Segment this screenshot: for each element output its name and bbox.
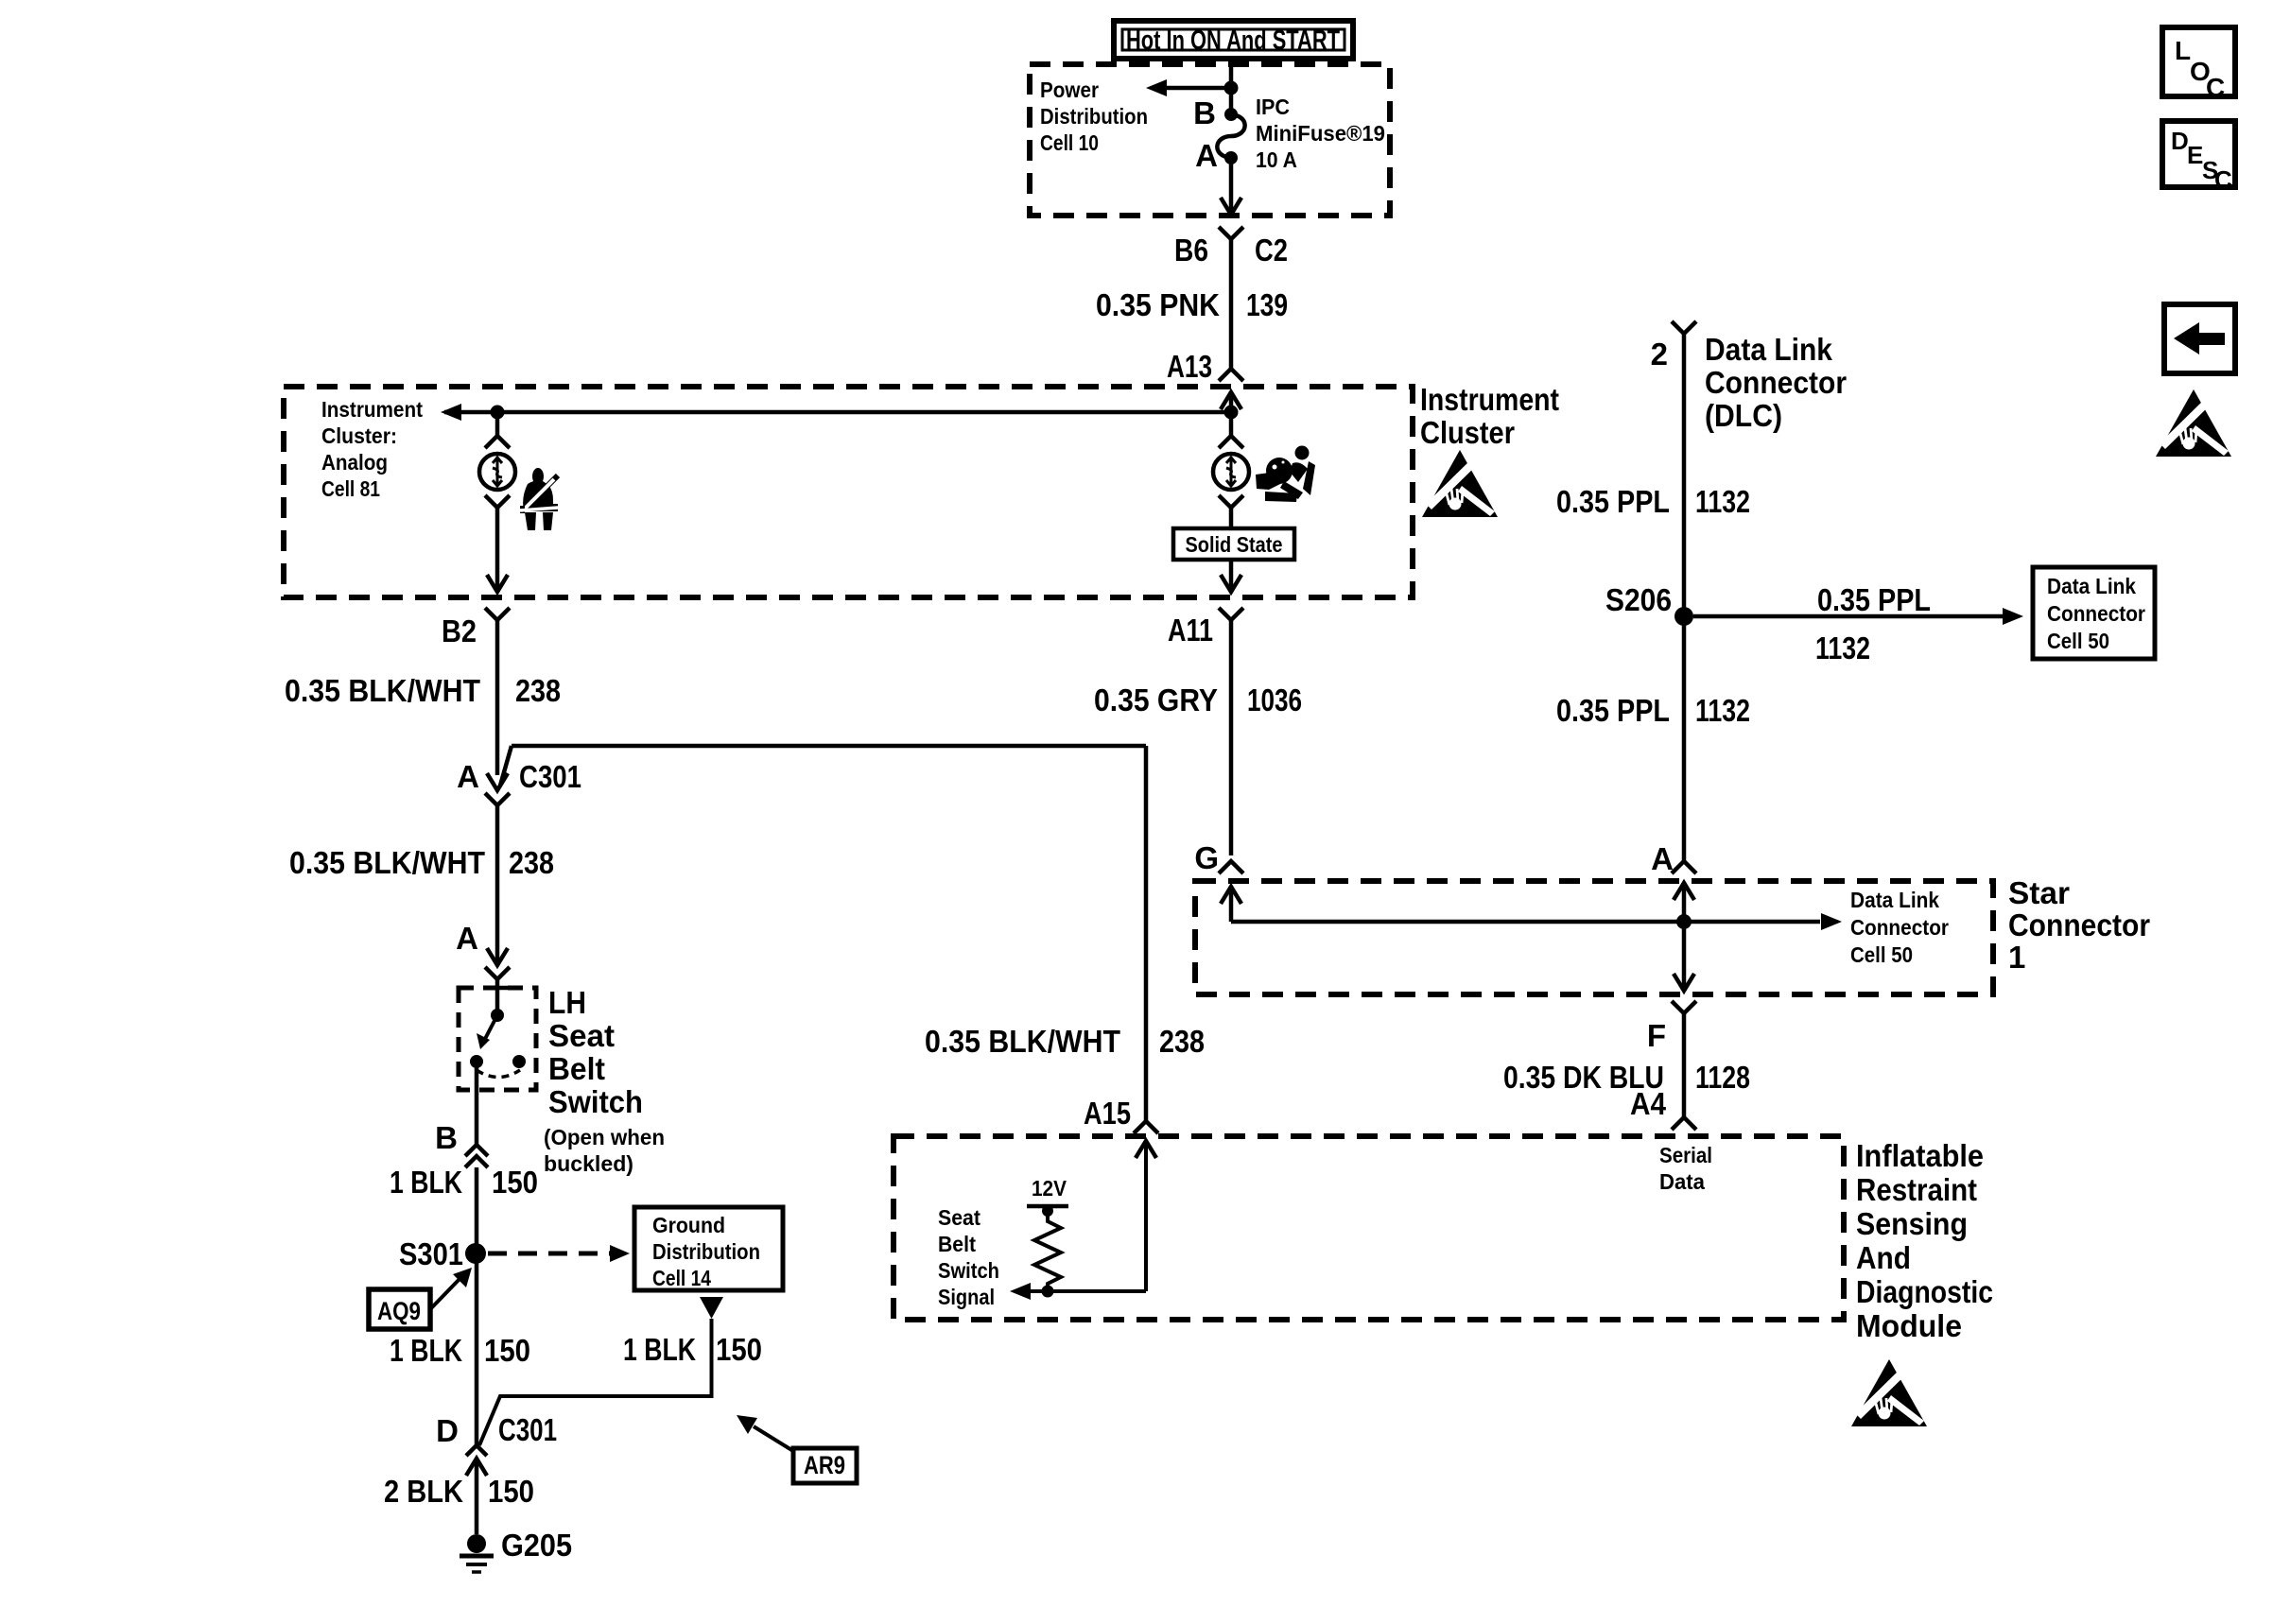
svg-text:0.35 BLK/WHT: 0.35 BLK/WHT: [289, 845, 485, 880]
svg-text:A13: A13: [1167, 349, 1212, 384]
svg-text:Hot In ON And START: Hot In ON And START: [1126, 26, 1340, 56]
svg-text:Seat: Seat: [938, 1205, 980, 1230]
svg-text:0.35 PPL: 0.35 PPL: [1817, 582, 1931, 617]
svg-text:238: 238: [1159, 1024, 1205, 1059]
svg-text:0.35 BLK/WHT: 0.35 BLK/WHT: [925, 1024, 1120, 1059]
svg-text:Connector: Connector: [2047, 601, 2145, 626]
svg-text:Cell 10: Cell 10: [1040, 130, 1099, 155]
svg-text:0.35 PNK: 0.35 PNK: [1096, 287, 1220, 322]
svg-text:A11: A11: [1168, 613, 1213, 648]
svg-text:LH: LH: [548, 985, 586, 1020]
svg-text:B: B: [1193, 95, 1216, 130]
svg-text:C301: C301: [519, 759, 581, 794]
svg-text:Connector: Connector: [1705, 365, 1847, 400]
svg-text:Inflatable: Inflatable: [1856, 1138, 1984, 1173]
svg-text:Switch: Switch: [938, 1258, 999, 1283]
svg-text:1 BLK: 1 BLK: [390, 1333, 462, 1368]
svg-text:Serial: Serial: [1659, 1143, 1712, 1167]
svg-text:buckled): buckled): [544, 1151, 633, 1176]
svg-text:(Open when: (Open when: [544, 1125, 665, 1149]
svg-text:L: L: [2175, 36, 2191, 65]
svg-text:0.35 PPL: 0.35 PPL: [1556, 693, 1670, 728]
svg-text:1132: 1132: [1695, 484, 1750, 519]
svg-text:Restraint: Restraint: [1856, 1172, 1977, 1207]
svg-text:S206: S206: [1605, 582, 1672, 617]
svg-text:Data Link: Data Link: [1705, 332, 1833, 367]
svg-text:(DLC): (DLC): [1705, 398, 1782, 433]
svg-text:A: A: [457, 759, 479, 794]
svg-text:Connector: Connector: [2008, 907, 2150, 942]
svg-text:And: And: [1856, 1240, 1911, 1275]
svg-text:IPC: IPC: [1256, 95, 1290, 119]
svg-text:Sensing: Sensing: [1856, 1206, 1968, 1241]
svg-text:A15: A15: [1084, 1096, 1131, 1131]
svg-text:1036: 1036: [1247, 682, 1302, 717]
svg-text:AR9: AR9: [804, 1451, 845, 1479]
svg-text:10 A: 10 A: [1256, 147, 1297, 172]
svg-text:1 BLK: 1 BLK: [390, 1165, 462, 1200]
svg-text:Instrument: Instrument: [321, 397, 423, 422]
svg-text:Star: Star: [2008, 875, 2070, 910]
svg-text:Diagnostic: Diagnostic: [1856, 1274, 1993, 1309]
svg-text:1128: 1128: [1695, 1060, 1750, 1095]
svg-text:2 BLK: 2 BLK: [384, 1474, 463, 1509]
svg-text:Cluster:: Cluster:: [321, 423, 397, 448]
svg-text:Data Link: Data Link: [1850, 888, 1939, 912]
svg-text:Analog: Analog: [321, 450, 388, 475]
svg-text:238: 238: [509, 845, 554, 880]
svg-text:Belt: Belt: [938, 1232, 976, 1256]
svg-text:C: C: [2206, 73, 2225, 102]
svg-text:MiniFuse®19: MiniFuse®19: [1256, 121, 1385, 146]
svg-text:1132: 1132: [1815, 631, 1870, 665]
svg-text:Power: Power: [1040, 78, 1099, 102]
svg-text:12V: 12V: [1032, 1176, 1067, 1201]
svg-text:D: D: [2171, 127, 2189, 155]
svg-text:B2: B2: [442, 613, 477, 648]
svg-text:150: 150: [484, 1333, 530, 1368]
svg-text:1 BLK: 1 BLK: [623, 1332, 696, 1367]
svg-text:A: A: [1651, 841, 1674, 876]
svg-text:Belt: Belt: [548, 1051, 605, 1086]
svg-text:C2: C2: [1255, 233, 1288, 268]
svg-text:Signal: Signal: [938, 1285, 995, 1309]
svg-text:150: 150: [716, 1332, 762, 1367]
svg-text:0.35 BLK/WHT: 0.35 BLK/WHT: [285, 673, 480, 708]
svg-text:G205: G205: [501, 1528, 572, 1563]
svg-text:C: C: [2214, 165, 2232, 194]
svg-text:Distribution: Distribution: [652, 1239, 760, 1264]
svg-text:Data: Data: [1659, 1169, 1705, 1194]
svg-text:0.35 GRY: 0.35 GRY: [1094, 682, 1218, 717]
svg-text:Cell 14: Cell 14: [652, 1266, 711, 1290]
svg-text:1: 1: [2008, 940, 2025, 975]
svg-text:D: D: [436, 1413, 459, 1448]
svg-text:Seat: Seat: [548, 1018, 615, 1053]
svg-text:150: 150: [492, 1165, 538, 1200]
svg-text:Distribution: Distribution: [1040, 104, 1148, 129]
svg-text:Data Link: Data Link: [2047, 574, 2136, 598]
svg-text:Ground: Ground: [652, 1213, 725, 1237]
svg-text:Instrument: Instrument: [1420, 382, 1559, 417]
svg-text:Module: Module: [1856, 1308, 1962, 1343]
svg-text:E: E: [2187, 141, 2203, 169]
svg-text:G: G: [1194, 840, 1219, 875]
svg-text:AQ9: AQ9: [377, 1297, 421, 1325]
svg-text:2: 2: [1651, 337, 1668, 371]
svg-text:Cell 50: Cell 50: [1850, 942, 1913, 967]
svg-text:139: 139: [1246, 287, 1288, 322]
svg-text:A4: A4: [1630, 1086, 1667, 1121]
svg-text:150: 150: [488, 1474, 534, 1509]
svg-text:B6: B6: [1174, 233, 1208, 268]
svg-text:Cluster: Cluster: [1420, 415, 1515, 450]
svg-text:C301: C301: [498, 1412, 557, 1447]
svg-text:B: B: [435, 1120, 458, 1155]
svg-text:A: A: [1195, 138, 1218, 173]
svg-text:Solid State: Solid State: [1186, 532, 1283, 557]
svg-text:Switch: Switch: [548, 1084, 643, 1119]
svg-text:Connector: Connector: [1850, 915, 1949, 940]
svg-text:0.35 PPL: 0.35 PPL: [1556, 484, 1670, 519]
svg-text:F: F: [1647, 1018, 1666, 1053]
svg-text:A: A: [456, 921, 478, 956]
svg-text:S301: S301: [399, 1236, 463, 1271]
svg-text:238: 238: [515, 673, 561, 708]
svg-text:1132: 1132: [1695, 693, 1750, 728]
svg-text:Cell 81: Cell 81: [321, 476, 380, 501]
svg-text:Cell 50: Cell 50: [2047, 629, 2109, 653]
